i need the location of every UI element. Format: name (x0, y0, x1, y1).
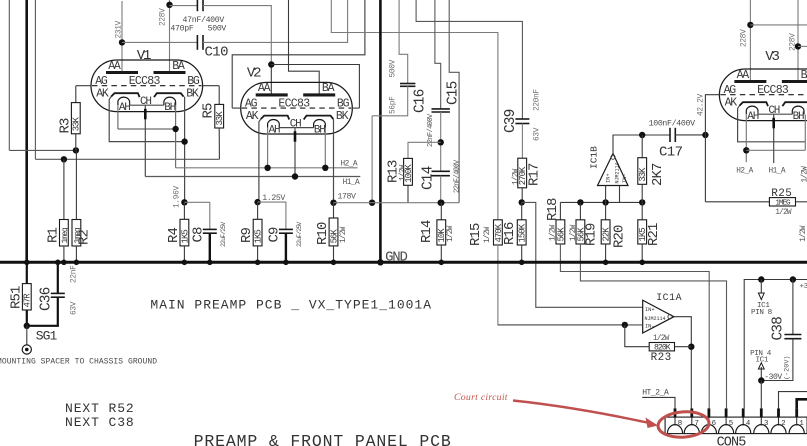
wire node R1R5 (35, 158, 219, 160)
svg-text:R1: R1 (46, 227, 62, 243)
wire C15 top feed (435, 0, 441, 109)
wire SG1 stub (26, 326, 28, 345)
label R21 (646, 223, 662, 246)
connector CON5 pin 3 (754, 408, 769, 433)
wire CON5 pin3 lead (760, 381, 762, 409)
wire C9 top (258, 202, 286, 229)
wire 178V rail (334, 202, 460, 204)
wire IC1B output (613, 135, 670, 154)
svg-text:100nF/400V: 100nF/400V (649, 119, 696, 129)
capacitor C10 (197, 35, 203, 50)
label R23 watt (653, 335, 670, 343)
svg-text:R25: R25 (771, 188, 792, 200)
node GND junction R21 (639, 260, 645, 266)
wire C38 top lead (792, 280, 794, 335)
wire C39 feed (416, 0, 522, 119)
wire 231V anode feed V1-AA (121, 1, 123, 73)
connector CON5 pin 1 (789, 408, 804, 433)
connector CON5 pin 5 (719, 408, 734, 433)
label 470pF (170, 25, 193, 34)
wire R23 left link (625, 325, 649, 347)
svg-text:HT_2_A: HT_2_A (642, 389, 669, 398)
wire R20 top lead (605, 202, 607, 219)
svg-text:1/2W: 1/2W (400, 164, 408, 181)
svg-text:63V: 63V (71, 301, 79, 315)
resistor R18 (556, 220, 566, 244)
node GND junction R9 (255, 260, 261, 266)
svg-text:228V: 228V (790, 33, 798, 51)
svg-text:1MEG: 1MEG (775, 200, 791, 208)
connector CON5 pin 6 (701, 408, 716, 433)
wire IC1A IN- rail (498, 324, 643, 326)
label right clipped watt upper (802, 166, 807, 183)
wire C16 bottom lead (372, 86, 408, 116)
svg-text:56K: 56K (556, 227, 566, 242)
wire C8 bottom lead (209, 233, 211, 261)
node R20 junction (602, 199, 608, 205)
wire H1_A rail (145, 176, 360, 178)
wire input bus left (8, 0, 10, 150)
label H1_A V3 (769, 168, 786, 176)
node GND junction R51 (24, 260, 30, 266)
wire V3 AG path (705, 95, 720, 202)
wire V1 AH outer descent (117, 106, 119, 130)
wire R2 bottom lead (75, 246, 77, 261)
wire R17 top lead (521, 124, 523, 159)
resistor R15 (494, 220, 504, 245)
label R9 (239, 227, 255, 243)
node -30V junction (758, 377, 764, 383)
wire R10 bottom lead (333, 246, 335, 261)
label R2 (77, 229, 93, 245)
wire R5 bottom lead (218, 128, 220, 159)
node GND junction R4 (182, 260, 188, 266)
svg-text:+36V: +36V (800, 283, 807, 291)
wire R14 top lead (440, 203, 442, 220)
node R23 right junction (688, 344, 694, 350)
svg-text:231V: 231V (115, 20, 123, 38)
capacitor C15 (432, 109, 450, 112)
svg-text:63V: 63V (534, 127, 542, 141)
wire C16 bottom node (371, 116, 373, 203)
svg-text:10K: 10K (437, 228, 447, 243)
label R19 (584, 223, 600, 246)
svg-text:BH: BH (793, 111, 804, 123)
wire C16 top feed (399, 0, 408, 84)
wire V2 AK path (259, 119, 261, 202)
svg-text:1/2W: 1/2W (800, 225, 807, 242)
node GND thick bus junction (377, 259, 383, 265)
svg-text:BK: BK (336, 110, 349, 123)
label R10 (315, 222, 331, 245)
svg-text:C36: C36 (39, 287, 55, 311)
svg-text:MOUNTING SPACER TO CHASSIS GRO: MOUNTING SPACER TO CHASSIS GROUND (0, 358, 157, 367)
svg-text:BK: BK (186, 88, 199, 101)
label C8 (191, 227, 207, 243)
svg-text:C39: C39 (503, 109, 519, 133)
wire thick HT bus (379, 0, 382, 261)
node V3 heater junction (743, 147, 749, 153)
node R19 junction (577, 199, 583, 205)
resistor R17 (518, 158, 528, 188)
label R23 (651, 352, 672, 364)
wire V1 BK descent to R4 (184, 97, 186, 203)
svg-text:1/2W: 1/2W (802, 166, 807, 183)
capacitor C17 (670, 128, 675, 142)
wire V2 AA lead (270, 65, 272, 95)
label IC1 pin8 (751, 302, 773, 317)
svg-text:AG: AG (245, 97, 258, 110)
svg-text:BA: BA (801, 69, 807, 82)
node R2R3 junction (73, 147, 79, 153)
wire R17 bottom lead (521, 188, 523, 203)
node C38 top junction (790, 276, 796, 282)
node R4 junction (181, 199, 187, 205)
node 2K7 top junction (639, 132, 645, 138)
label 228V (160, 8, 168, 26)
wire V3 BA feed (797, 0, 799, 82)
wire C10 left (122, 41, 197, 43)
svg-text:PREAMP & FRONT PANEL PCB: PREAMP & FRONT PANEL PCB (194, 432, 452, 446)
label R13 (386, 160, 402, 183)
op-amp IC1A (643, 300, 674, 333)
label HT_2_A (642, 389, 669, 398)
resistor R10 (329, 218, 339, 246)
svg-text:33K: 33K (215, 111, 225, 126)
resistor R9 (253, 219, 263, 246)
svg-text:1meg: 1meg (61, 227, 70, 243)
svg-text:500V: 500V (390, 59, 398, 77)
label IC1 pin4 (750, 350, 772, 365)
tube V1 ECC83 (91, 60, 203, 114)
svg-text:BH: BH (314, 125, 325, 137)
node V2 BH junction (322, 165, 328, 171)
resistor R3 (71, 103, 81, 134)
wire R19 top lead (579, 202, 581, 219)
capacitor C16 (400, 84, 415, 87)
svg-text:AH: AH (747, 111, 758, 123)
node C16 bottom junction (369, 200, 375, 206)
label C39 (503, 109, 519, 133)
svg-text:GND: GND (385, 250, 407, 266)
svg-text:R18: R18 (545, 198, 561, 221)
wire R16 top lead (521, 202, 523, 219)
wire R13 top (408, 142, 441, 158)
svg-text:3: 3 (764, 420, 768, 428)
svg-text:C17: C17 (659, 144, 683, 160)
wire R51 top lead (26, 262, 28, 283)
wire H2_A rail (176, 167, 358, 169)
label R15 watt (484, 226, 492, 243)
svg-text:C16: C16 (413, 89, 429, 113)
svg-text:1/2W: 1/2W (513, 168, 521, 185)
connector CON5 pin 7 (684, 408, 699, 433)
wire V3 BH outer descent (804, 115, 806, 151)
svg-text:2K7: 2K7 (650, 163, 666, 186)
label C8 value (220, 222, 227, 247)
svg-text:ECC83: ECC83 (129, 75, 161, 88)
svg-text:IN-: IN- (645, 324, 655, 330)
label C10 (205, 44, 229, 60)
wire C38 bottom lead (761, 339, 793, 381)
svg-text:V3: V3 (765, 49, 779, 65)
label R1 (46, 227, 62, 243)
svg-text:22nF: 22nF (71, 265, 79, 283)
wire V2 CH descent (294, 127, 296, 176)
svg-text:IN+: IN+ (645, 307, 655, 313)
label V2 (247, 65, 261, 81)
label next c38 (65, 415, 135, 430)
svg-text:22uF/25V: 22uF/25V (296, 222, 303, 247)
tube V3 ECC83 (719, 69, 807, 123)
label R17 watt (513, 168, 521, 185)
label 500V top (208, 25, 227, 34)
wire V1 heater join (118, 128, 176, 130)
svg-text:500V: 500V (208, 25, 227, 34)
wire C17 right (675, 134, 705, 136)
label R51 (9, 286, 25, 309)
svg-text:C14: C14 (421, 166, 437, 190)
label R14 watt (447, 225, 455, 242)
svg-text:1.96V: 1.96V (174, 185, 182, 208)
svg-text:AH: AH (119, 102, 130, 114)
label R5 (201, 103, 217, 119)
wire V2 AG path (232, 0, 365, 108)
svg-text:1/2W: 1/2W (447, 225, 455, 242)
svg-text:1/2W: 1/2W (340, 226, 348, 243)
label 1.25V (262, 194, 285, 203)
svg-text:R20: R20 (612, 225, 628, 248)
svg-text:R19: R19 (584, 223, 600, 246)
svg-text:C38: C38 (771, 317, 787, 341)
wire R13 bottom (407, 185, 409, 202)
svg-text:42.2V: 42.2V (698, 93, 706, 116)
wire C8 top (184, 202, 209, 229)
label C38 value (784, 356, 792, 380)
annotation ellipse (657, 410, 710, 439)
svg-text:NEXT C38: NEXT C38 (65, 415, 135, 430)
label H2_A (341, 161, 358, 169)
label R15 (468, 223, 484, 246)
svg-text:22K: 22K (602, 227, 612, 242)
node GND junction R16 (519, 260, 525, 266)
node GND junction R1 (61, 260, 67, 266)
node V3 BA junction (795, 43, 801, 49)
svg-text:R4: R4 (166, 227, 182, 243)
wire IC1B IN+ lead (605, 186, 607, 203)
wire R3 bottom lead (75, 134, 77, 151)
wire R19 descent (580, 244, 726, 408)
svg-text:228V: 228V (740, 29, 748, 47)
label R19 watt (570, 224, 578, 241)
wire CON5 pin2 feed (779, 392, 807, 409)
node R1 junction (61, 156, 67, 162)
wire R15 descent (498, 245, 625, 325)
svg-text:IC1B: IC1B (589, 146, 600, 169)
node GND junction C9 (283, 260, 289, 266)
wire C14 right feed (449, 0, 459, 203)
svg-text:R14: R14 (419, 220, 435, 243)
capacitor C9 (279, 229, 293, 233)
wire V3 AA rail (750, 24, 807, 26)
wire input bus 2 (34, 0, 36, 159)
wire IC1 pin4 arrow (758, 363, 764, 381)
wire CON5 pin1 feed (797, 399, 807, 408)
svg-text:R51: R51 (9, 286, 25, 309)
label IC1B (589, 146, 600, 169)
label main preamp title (150, 298, 432, 313)
wire V1 CH thick mark (144, 109, 147, 120)
resistor R14 (437, 220, 447, 245)
wire R10 top lead (333, 203, 335, 218)
wire V3 CH thick mark (772, 118, 775, 129)
capacitor C8 (203, 229, 217, 233)
svg-text:1: 1 (799, 420, 804, 428)
svg-text:BH: BH (164, 102, 175, 114)
wire C9 bottom lead (285, 233, 287, 261)
wire GND bus (0, 261, 807, 264)
label R17 (527, 163, 543, 186)
label SG1 (36, 328, 58, 343)
svg-text:IN+: IN+ (606, 173, 612, 183)
wire V1 AG stub to R3 (76, 85, 92, 87)
wire R25 left lead (705, 201, 769, 203)
label preamp front panel title (194, 432, 452, 446)
wire R18 descent (560, 244, 709, 408)
wire V3 BA stub (798, 45, 807, 47)
svg-text:R3: R3 (58, 118, 74, 134)
capacitor C39 (515, 119, 529, 124)
wire R2 top lead (75, 150, 77, 219)
node R16 junction (519, 199, 525, 205)
svg-text:8: 8 (678, 420, 682, 428)
svg-text:V1: V1 (137, 48, 151, 64)
svg-text:AG: AG (95, 75, 108, 88)
svg-text:MAIN PREAMP PCB _ VX_TYPE1_100: MAIN PREAMP PCB _ VX_TYPE1_1001A (150, 298, 432, 313)
wire V2 BH outer descent (324, 128, 326, 168)
wire R51 bottom lead (26, 310, 28, 326)
label V3 (765, 49, 779, 65)
node GND junction C36 (55, 260, 61, 266)
label R13 watt (400, 164, 408, 181)
svg-text:AH: AH (269, 125, 280, 137)
label C36 63V (71, 301, 79, 315)
resistor R1 (60, 220, 70, 247)
label 228V V3a (740, 29, 748, 47)
label C14 (421, 166, 437, 190)
node V1 AA coupling junction (119, 39, 125, 45)
wire R3 top lead (75, 86, 77, 103)
svg-text:V2: V2 (247, 65, 261, 81)
wire C36 top lead (57, 262, 59, 293)
svg-text:BG: BG (187, 75, 200, 88)
svg-text:R16: R16 (502, 222, 518, 245)
svg-text:C10: C10 (205, 44, 229, 60)
node R21 junction (639, 199, 645, 205)
label right clipped watt (800, 225, 807, 242)
wire 2K7 bottom lead (641, 184, 643, 202)
wire C10 right up (203, 0, 348, 42)
resistor R51 (22, 284, 32, 310)
wire R21 bottom lead (641, 244, 643, 261)
resistor R20 (601, 220, 611, 244)
svg-text:C8: C8 (191, 227, 207, 243)
resistor R21 (638, 220, 648, 244)
node V2 CH junction (292, 173, 298, 179)
wire R15 feed (331, 0, 498, 220)
svg-text:5: 5 (729, 420, 733, 428)
wire V1 BH outer descent (175, 106, 177, 168)
label mounting spacer note (0, 358, 157, 367)
node C15 C14 junction (438, 139, 444, 145)
svg-text:BA: BA (172, 60, 185, 73)
label CON5 (717, 435, 747, 446)
wire 2K7 top lead (641, 135, 643, 158)
svg-text:R2: R2 (77, 229, 93, 245)
wire V2 AG stub (232, 107, 241, 109)
svg-text:R10: R10 (315, 222, 331, 245)
svg-text:178V: 178V (338, 193, 357, 202)
wire 47nF right to V2 AA (203, 6, 271, 65)
wire C14 bottom lead (440, 176, 442, 203)
resistor R2 (72, 220, 82, 247)
svg-text:SG1: SG1 (36, 328, 58, 343)
label 231V (115, 20, 123, 38)
annotation court circuit label (454, 392, 508, 403)
label C15 (446, 81, 462, 105)
svg-text:IC1: IC1 (756, 357, 769, 365)
connector CON5 pin 4 (736, 408, 751, 433)
svg-text:R21: R21 (646, 223, 662, 246)
wire IC1B IN- lead (619, 186, 621, 203)
node GND junction R14 (439, 260, 445, 266)
label 63V C39 (534, 127, 542, 141)
label 228V V3b (790, 33, 798, 51)
wire R1 bottom lead (63, 246, 65, 261)
node GND junction R20 (603, 260, 609, 266)
mounting spacer SG1 (22, 345, 31, 354)
svg-text:AA: AA (737, 69, 750, 82)
wire V3 CH descent (773, 114, 775, 163)
label 178V (338, 193, 357, 202)
svg-text:Court circuit: Court circuit (454, 392, 508, 403)
svg-text:4: 4 (746, 420, 751, 428)
node GND junction R2 (74, 260, 80, 266)
connector CON5 pin 8 (667, 408, 682, 433)
resistor R16 (517, 220, 527, 245)
label C36 value (71, 265, 79, 283)
wire R20 bottom lead (605, 244, 607, 261)
wire thick supply bus left (25, 0, 28, 261)
capacitor 47nF/400V (197, 0, 203, 11)
node V1 BA junction (166, 2, 172, 8)
wire IC1 pin8 arrow (758, 280, 764, 300)
node V2 AA junction (268, 61, 274, 67)
node GND junction C8 (207, 260, 213, 266)
node V2 AH junction (264, 165, 270, 171)
svg-text:1/2W: 1/2W (775, 209, 792, 217)
node R14 junction (438, 200, 444, 206)
svg-text:33K: 33K (638, 167, 648, 182)
svg-text:6: 6 (712, 420, 716, 428)
svg-text:-30V: -30V (764, 373, 782, 382)
wire R16 bottom lead (521, 245, 523, 261)
wire IN+ feed (522, 202, 643, 307)
label C14 value (454, 159, 462, 193)
tube V2 ECC83 (241, 82, 353, 136)
capacitor C38 (784, 335, 801, 339)
node IC1 pin8 junction (758, 276, 764, 282)
